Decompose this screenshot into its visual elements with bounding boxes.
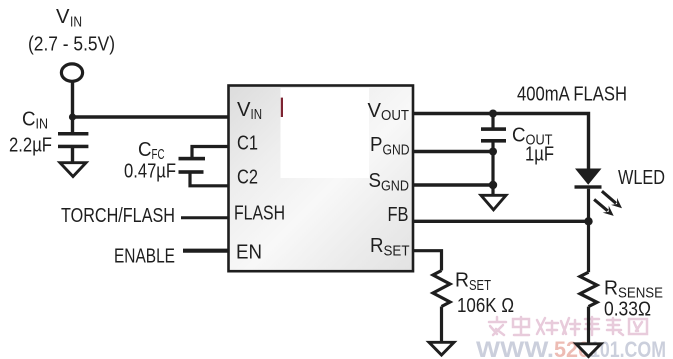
svg-text:C: C [512,124,526,147]
label VIN supply [28,5,115,56]
ground CIN [60,163,86,177]
wire VIN to pin [73,115,229,118]
svg-text:C: C [138,138,152,161]
capacitor CIN [58,132,88,148]
svg-text:S: S [369,169,382,192]
ground RSET [429,342,454,355]
svg-text:R: R [455,269,469,292]
svg-text:GND: GND [381,179,409,195]
node VOUT-COUT [489,110,497,118]
svg-text:V: V [237,98,251,121]
svg-text:400mA FLASH: 400mA FLASH [517,82,627,105]
capacitor CFC [179,157,206,174]
svg-text:R: R [604,277,618,300]
terminal circle VIN [61,64,82,81]
svg-text:C2: C2 [237,166,258,189]
wire CIN to ground [71,148,74,163]
wire CFC to C2 [190,174,229,186]
wire VOUT to LED corner [413,114,589,169]
svg-text:GND: GND [383,143,410,159]
svg-text:OUT: OUT [381,108,409,124]
LED arrows [594,191,622,216]
capacitor COUT [481,127,506,142]
svg-text:0.33Ω: 0.33Ω [604,298,651,321]
white patch inside IC [281,88,370,178]
resistor RSENSE [580,272,597,306]
svg-text:ENABLE: ENABLE [114,245,175,268]
svg-text:FLASH: FLASH [234,202,285,225]
node PGND junction [489,148,497,156]
svg-text:FB: FB [388,203,409,226]
node VIN junction [69,113,76,120]
label CFC [124,138,176,183]
svg-text:V: V [368,99,382,122]
ground SGND [481,195,506,210]
svg-text:P: P [370,133,383,156]
svg-text:WLED: WLED [618,166,665,189]
svg-text:106K Ω: 106K Ω [457,294,514,317]
wire RSET to ground [440,307,443,343]
svg-text:IN: IN [70,15,82,31]
wire COUT branch [491,114,494,128]
node FB junction [584,217,592,225]
svg-text:TORCH/FLASH: TORCH/FLASH [61,204,175,227]
svg-text:EN: EN [236,241,262,264]
svg-text:101.COM: 101.COM [590,337,666,359]
svg-text:SET: SET [384,244,410,260]
LED WLED [575,169,602,189]
node SGND junction [489,181,497,189]
wire C1 to CFC [192,147,229,159]
svg-text:V: V [56,5,70,28]
svg-text:0.47µF: 0.47µF [124,160,176,183]
svg-text:1µF: 1µF [525,143,554,166]
svg-text:IN: IN [251,107,263,123]
label CIN [9,108,52,157]
svg-text:WWW.: WWW. [476,337,554,359]
svg-text:R: R [370,234,384,257]
wire FB [413,220,589,223]
watermark chinese text 家电维修资料网 [489,317,647,335]
wire TORCH/FLASH [181,216,229,219]
red mark inside IC [281,98,283,117]
svg-text:2.2µF: 2.2µF [9,134,52,157]
svg-text:IN: IN [36,117,49,133]
svg-text:C1: C1 [237,132,258,155]
wire SGND [413,183,493,186]
wire LED to FB node [587,189,590,222]
wire ENABLE [183,249,229,253]
watermark url WWW.520101.COM [476,337,666,359]
svg-text:(2.7 - 5.5V): (2.7 - 5.5V) [28,33,115,56]
resistor RSET [433,271,450,307]
wire VIN vertical [71,82,74,135]
wire FB node to RSENSE [587,221,590,272]
wire PGND [413,150,493,153]
op-amp U1 IC box [229,86,414,272]
wire COUT to SGND [491,143,494,196]
svg-text:C: C [22,108,36,131]
svg-text:SET: SET [469,278,491,294]
wire RSENSE to ground [587,307,590,344]
wire RSET pin stub [413,251,442,271]
ground RSENSE [576,344,601,357]
